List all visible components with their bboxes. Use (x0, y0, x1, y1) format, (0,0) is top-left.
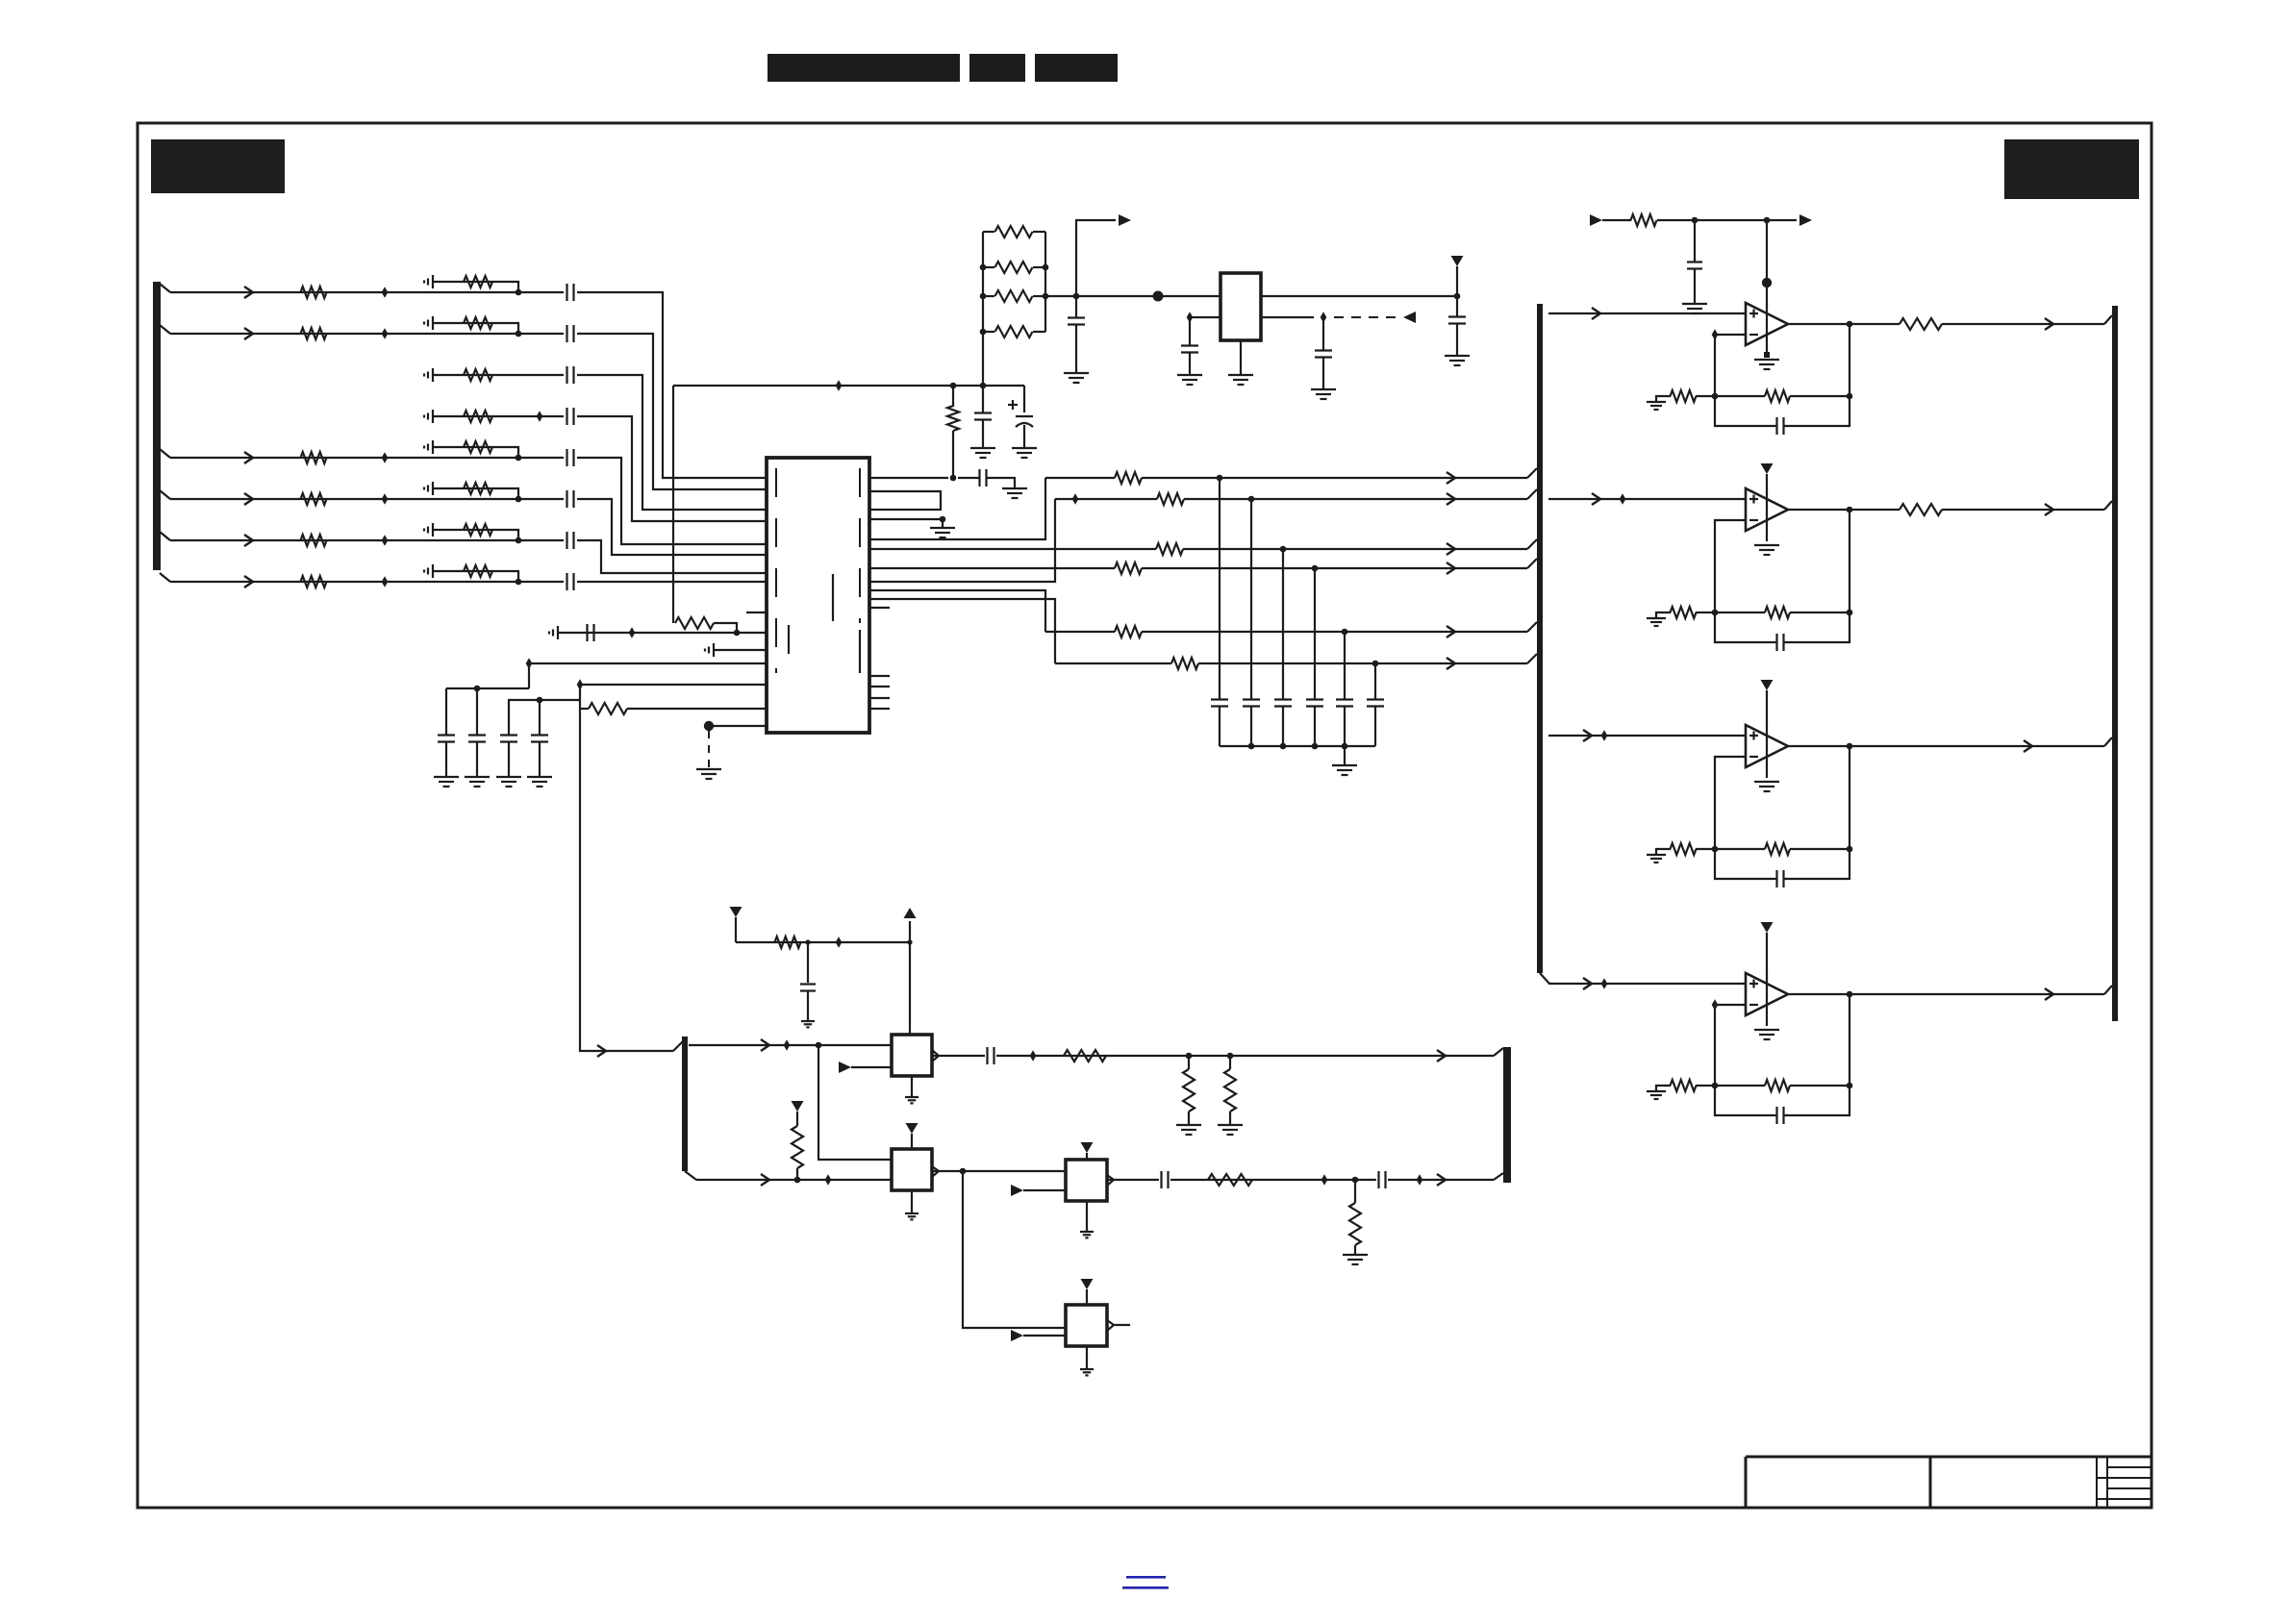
node W2 junction (1248, 496, 1255, 503)
wire U1 right stub 632 (869, 607, 890, 609)
wire rowB (696, 1174, 892, 1186)
resistor R6 (301, 493, 327, 505)
node row 2 junction (516, 331, 522, 337)
wire avdd line (673, 385, 1024, 387)
wire pin540 gnd lead (942, 519, 944, 528)
wire W2 riser (869, 499, 1055, 582)
U1 internal bar 2 (788, 625, 790, 654)
ground row 5 (424, 440, 433, 454)
transistor Q4 (1066, 1305, 1114, 1346)
node U6 -in diamond (1712, 999, 1719, 1011)
capacitor C24 (1068, 296, 1085, 373)
wire Q1 gate (851, 1066, 892, 1068)
capacitor C13 (531, 700, 548, 777)
wire pin676 (714, 649, 767, 651)
U1 internal bar 3 (859, 630, 861, 673)
U1 internal bar 1 (832, 574, 834, 621)
node Q1 out diamond (1030, 1050, 1037, 1062)
ground row 6 (424, 482, 433, 495)
node U4 fb junction (1712, 610, 1719, 616)
wire rowA (689, 1039, 892, 1051)
resistor Rg3 (1671, 843, 1697, 855)
wire bus stub row 6 (160, 490, 170, 499)
wire W3 (869, 543, 1527, 555)
node U5 fb junction (1712, 846, 1719, 853)
wire U6 fb (1696, 1085, 1765, 1087)
link underline 2 (1122, 1587, 1169, 1589)
capacitor C27 (1687, 220, 1702, 304)
node in junction (1692, 217, 1699, 224)
resistor R27 (1224, 1056, 1236, 1125)
resistor R19 (947, 386, 959, 478)
ground net658 (549, 626, 558, 639)
node W4 junction (1312, 565, 1319, 572)
wire rowB bevel (685, 1171, 696, 1180)
op-amp bus bar right (2112, 306, 2118, 1021)
wire U5 fb cap loop2 (1784, 849, 1850, 879)
wire U3 -input (1715, 335, 1746, 396)
capacitor C26 polarized (1008, 386, 1033, 448)
wire Q1 out bevel (1494, 1048, 1503, 1056)
resistor R16 (464, 565, 492, 577)
node Q1 out junction2 (1227, 1053, 1234, 1060)
wire net690 (529, 663, 767, 688)
ground C25 (970, 448, 995, 458)
node U5 +in diamond (1601, 730, 1608, 741)
wire U5 fb (1696, 848, 1765, 850)
power arrow Q1 pull (730, 907, 742, 942)
node U3 pad (1764, 352, 1770, 358)
wire pin511 loop (869, 491, 941, 510)
resistor R25 (1064, 1050, 1106, 1062)
capacitor C31 (1379, 1171, 1386, 1188)
wire Q1 gnd lead (911, 1076, 913, 1096)
wire q1 pull (736, 941, 910, 943)
ground U6 (1754, 1030, 1779, 1039)
capacitor C28 (800, 942, 816, 1021)
resistor R20 (983, 226, 1045, 237)
resistor R10 (464, 317, 492, 329)
node ladder junction (1043, 293, 1049, 300)
capacitor C3 (567, 366, 574, 384)
resistor Rf2 (1765, 607, 1790, 618)
resistor R23 (983, 326, 1045, 337)
ground pin755 (696, 769, 721, 779)
node W5 junction (1342, 629, 1348, 636)
wire input row 2 (170, 328, 516, 339)
wire Q3 out3 (1388, 1174, 1494, 1186)
ground C27 (1682, 304, 1707, 313)
wire U4 fb2 (1790, 612, 1850, 613)
wire net712 (580, 685, 767, 700)
capacitor Cf4 (1777, 1107, 1784, 1124)
capacitor C29 (988, 1047, 994, 1064)
node U3 out junction (1847, 321, 1853, 328)
wire bus bottom bevel (1540, 973, 1549, 984)
wire U3 fb (1696, 395, 1765, 397)
node U4 out junction (1847, 507, 1853, 513)
node U5 fb junction2 (1847, 846, 1853, 853)
wire U4 fb cap loop2 (1784, 612, 1850, 642)
op-amp bus bar left (1537, 304, 1543, 973)
wire U4 fb gnd lead (1656, 612, 1671, 618)
wire cap bank rail (1220, 745, 1375, 747)
wire pin755 dashed (708, 731, 710, 769)
capacitor C1 (567, 284, 574, 301)
resistor R18 (589, 703, 627, 714)
node avdd junction (950, 383, 957, 389)
wire U4 output (1788, 504, 2104, 515)
ground C28 (801, 1021, 815, 1027)
wire W6 riser (869, 599, 1055, 663)
node W1 junction (1217, 475, 1223, 482)
capacitor C30 (1162, 1171, 1169, 1188)
page frame border (138, 123, 2152, 1508)
wire row 5 to cap (518, 457, 564, 459)
wire U6 output (1788, 988, 2104, 1000)
wire W2 (1055, 493, 1527, 505)
power arrow Q2 (906, 1123, 919, 1149)
wire vdd up branch (1076, 220, 1116, 296)
wire Q3 out2 (1170, 1179, 1376, 1181)
ground pin676 (705, 643, 714, 657)
wire bus stub row 7 (160, 532, 170, 540)
transistor Q2 (892, 1149, 939, 1190)
ground R27 (1218, 1125, 1243, 1135)
node row 7 junction (516, 537, 522, 544)
node row 8 junction (516, 579, 522, 586)
wire U5 out fb vert (1849, 746, 1850, 849)
capacitor C2 (567, 325, 574, 342)
port arrow Q1 gate (839, 1062, 851, 1073)
wire U3 fb2 (1790, 395, 1850, 397)
node U6 +in diamond (1601, 978, 1608, 989)
resistor R9 (464, 276, 492, 287)
ground C11 (465, 777, 490, 787)
wire row 4 rc (433, 415, 564, 417)
wire Q2 out (932, 1170, 1066, 1172)
capacitor C16 (1243, 499, 1260, 746)
node avdd diamond (836, 380, 843, 391)
node W2 diamond (1072, 493, 1079, 505)
wire row 1 to cap (518, 291, 564, 293)
capacitor C15 (1211, 478, 1228, 746)
wire Q3 out bevel (1494, 1173, 1503, 1180)
wire U1 right stub 726 (869, 697, 890, 699)
node row 6 junction (516, 496, 522, 503)
wire W4 bevel (1527, 559, 1537, 568)
node rowA diamond (784, 1039, 791, 1051)
node W6 junction (1372, 661, 1379, 667)
wire pin755 (709, 725, 767, 727)
wire row 4 route to U1 (577, 416, 767, 521)
node net690 diamond (526, 658, 533, 669)
voltage regulator U2 (1220, 273, 1261, 340)
node U4 fb junction2 (1847, 610, 1853, 616)
wire U6 fb gnd lead (1656, 1086, 1671, 1091)
node row 8 diamond (382, 576, 389, 587)
wire row 1 rc (433, 282, 518, 292)
resistor R30 (1349, 1180, 1361, 1255)
wire U1 right stub 714 (869, 686, 890, 687)
wire input row 6 (170, 493, 516, 505)
ground row 4 (424, 410, 433, 423)
ground C10 (434, 777, 459, 787)
port arrow Q3 gate (1011, 1185, 1023, 1196)
ground R26 (1176, 1125, 1201, 1135)
node pin755 junction (704, 721, 714, 731)
resistor R2 (301, 328, 327, 339)
port arrow up branch (1119, 214, 1131, 226)
wire vdd out (1261, 295, 1457, 297)
wire net658 (558, 632, 767, 634)
wire U1 right stub 737 (869, 708, 890, 710)
wire row 7 rc (433, 530, 518, 540)
ground C22 (1177, 375, 1202, 385)
wire U5 +input (1548, 730, 1746, 741)
wire u2 left pin330b (1190, 316, 1199, 318)
port arrow out (1799, 214, 1812, 226)
power arrow rowB pull (792, 1101, 804, 1126)
resistor R17 (675, 617, 714, 629)
node W3 junction (1280, 546, 1287, 553)
wire q1 drain (909, 921, 911, 1035)
wire W1 riser (869, 478, 1045, 539)
capacitor C21 (1448, 296, 1466, 356)
wire U3 fb cap loop2 (1784, 396, 1850, 426)
wire U4 +input (1548, 493, 1746, 505)
op-amp U6 (1746, 973, 1788, 1015)
wire Q4 out stub (1114, 1324, 1130, 1326)
wire Q3 out (1107, 1179, 1159, 1181)
U1 internal dashed left (775, 468, 777, 673)
power arrow U5 (1761, 680, 1774, 727)
resistor R29 (1208, 1174, 1252, 1186)
wire bus stub row 2 (160, 325, 170, 334)
wire res ladder left rail (982, 232, 984, 386)
wire U4 fb cap loop (1715, 612, 1776, 642)
node rowB junction (794, 1177, 801, 1184)
ground C23 (1311, 389, 1336, 399)
wire W5 bevel (1527, 622, 1537, 632)
ground Q1 (905, 1097, 919, 1103)
wire U3 out bevel (2104, 315, 2112, 324)
wire Q1 out (932, 1055, 985, 1057)
node Q3 out junction (1352, 1177, 1359, 1184)
wire Q2 gnd lead (911, 1190, 913, 1213)
node u2 out diamond (1321, 312, 1327, 323)
lower bus bar right (1503, 1047, 1511, 1183)
wire U4 gnd lead (1766, 489, 1768, 541)
wire U3 gnd lead (1766, 304, 1768, 356)
title block (1746, 1457, 2152, 1508)
wire row 2 to cap (518, 333, 564, 335)
node ladder junction (980, 293, 987, 300)
power arrow Q4 (1081, 1279, 1094, 1305)
node Q3 out diamond2 (1417, 1174, 1423, 1186)
wire U6 fb cap loop2 (1784, 1086, 1850, 1115)
wire u2 gnd lead (1240, 340, 1242, 375)
node in junction2 (1764, 217, 1771, 224)
wire u2 left pin330 (1199, 316, 1220, 318)
node pin497 junction (950, 475, 957, 482)
wire U4 fb (1696, 612, 1765, 613)
wire U6 out fb vert (1849, 994, 1850, 1086)
wire u2 right pin330 (1261, 316, 1314, 318)
node net690 junction (474, 686, 481, 692)
redaction box top-left (151, 139, 285, 193)
node cap bank junction (1312, 743, 1319, 750)
wire row 6 rc (433, 488, 518, 499)
wire row 7 route to U1 (577, 540, 767, 573)
node U3 fb junction (1712, 393, 1719, 400)
input bus bar J1 (153, 282, 161, 570)
wire pin540 (869, 518, 943, 520)
ground C21 (1445, 356, 1470, 365)
wire W6 (1055, 658, 1527, 669)
node net658 junction (734, 630, 741, 637)
capacitor C20 (1367, 663, 1384, 746)
wire bus stub row 1 (160, 284, 170, 292)
wire row 2 rc (433, 323, 518, 334)
node net712 diamond (577, 679, 584, 690)
wire row 3 rc (433, 374, 564, 376)
node pin540 junction (940, 516, 946, 523)
lower bus bar left (682, 1037, 688, 1171)
port arrow left (1403, 312, 1416, 323)
capacitor C7 (567, 532, 574, 549)
resistor R12 (464, 411, 492, 422)
capacitor Cf2 (1777, 634, 1784, 651)
node U4 +in diamond (1620, 493, 1626, 505)
capacitor C9 (588, 624, 594, 641)
wire row 8 route to U1 (577, 581, 767, 583)
op-amp U1 main IC body (767, 458, 869, 733)
node Q1 out junction (1186, 1053, 1193, 1060)
ground row 2 (424, 316, 433, 330)
wire Q3 gnd lead (1086, 1201, 1088, 1232)
node vdd big junction (1153, 291, 1164, 302)
resistor R21 (983, 262, 1045, 273)
ground C14 (1002, 488, 1027, 498)
node vdd junction (1454, 293, 1461, 300)
node q1 drain junction (907, 939, 912, 944)
power arrow Q3 (1081, 1142, 1094, 1160)
power arrow vdd (1451, 256, 1464, 296)
ground row 7 (424, 523, 433, 537)
op-amp U3 (1746, 303, 1788, 345)
wire Q3 gate (1023, 1189, 1066, 1191)
transistor Q1 (892, 1035, 939, 1076)
wire row 5 route to U1 (577, 458, 767, 544)
wire dashed feedback (1334, 316, 1402, 318)
node U3 -in diamond (1712, 329, 1719, 340)
node row 4 diamond (537, 411, 543, 422)
wire Q2 to Q4 (963, 1171, 1066, 1328)
wire W5 riser (869, 590, 1045, 632)
node net712 junction (537, 697, 543, 704)
port arrow in (1590, 214, 1602, 226)
node row 5 diamond (382, 452, 389, 463)
resistor Rg4 (1671, 1080, 1697, 1091)
node avdd junction2 (980, 383, 987, 389)
wire cap bank gnd lead (1344, 746, 1346, 765)
wire pin497 to ground (987, 478, 1015, 488)
wire pin737 (627, 708, 767, 710)
ground pin540 (930, 528, 955, 537)
node ladder junction (980, 329, 987, 336)
capacitor C17 (1274, 549, 1292, 746)
resistor R15 (464, 524, 492, 536)
wire U4 -input (1715, 520, 1746, 612)
capacitor C14 (980, 469, 987, 487)
ground U2 (1228, 375, 1253, 385)
ground Q4 (1080, 1369, 1094, 1375)
capacitor C12 (500, 700, 517, 777)
wire U5 fb2 (1790, 848, 1850, 850)
wire pin737 resistor lead (580, 708, 589, 710)
wire input row 7 (170, 535, 516, 546)
capacitor C10 (438, 688, 455, 777)
resistor Rf3 (1765, 843, 1790, 855)
wire Q2 in1 (818, 1045, 892, 1160)
wire row 6 route to U1 (577, 499, 767, 555)
node U3 fb junction2 (1847, 393, 1853, 400)
wire U3 out fb vert (1849, 324, 1850, 396)
ground C12 (496, 777, 521, 787)
node cap bank junction (1280, 743, 1287, 750)
port arrow Q4 gate (1011, 1330, 1023, 1341)
wire U5 fb cap loop (1715, 849, 1776, 879)
wire W5 (1045, 626, 1527, 637)
wire lower feed arrow (597, 1045, 606, 1057)
wire input row 8 (170, 576, 516, 587)
wire U3 +input (1548, 308, 1746, 319)
resistor Rg1 (1671, 390, 1697, 402)
ground U5 fb (1647, 855, 1666, 862)
wire W1 bevel (1527, 468, 1537, 478)
node u2 diamond (1187, 312, 1194, 323)
node rowB diamond (825, 1174, 832, 1186)
wire U5 gnd lead (1766, 726, 1768, 778)
node cap bank junction (1248, 743, 1255, 750)
wire in net (1602, 214, 1797, 226)
wire net658 bend (714, 623, 737, 633)
node Q2 out junction (960, 1168, 967, 1175)
wire U4 out fb vert (1849, 510, 1850, 612)
wire U4 out bevel (2104, 501, 2112, 510)
node row 1 diamond (382, 287, 389, 298)
resistor R26 (1183, 1056, 1195, 1125)
node cap bank junction (1342, 743, 1348, 750)
wire U6 -input (1715, 1005, 1746, 1086)
link underline 1 (1126, 1576, 1166, 1579)
resistor Rg2 (1671, 607, 1697, 618)
redaction box top-right (2004, 139, 2139, 199)
wire row 2 route to U1 (577, 334, 767, 489)
capacitor C23 (1315, 317, 1332, 389)
capacitor C4 (567, 408, 574, 425)
capacitor Cf3 (1777, 870, 1784, 887)
wire row 8 rc (433, 571, 518, 582)
ground U3 fb (1647, 402, 1666, 410)
wire lower feed bevel (673, 1041, 683, 1051)
ground C26 (1012, 448, 1037, 458)
capacitor C8 (567, 573, 574, 590)
node U5 out junction (1847, 743, 1853, 750)
ground C13 (527, 777, 552, 787)
capacitor Cf1 (1777, 417, 1784, 435)
